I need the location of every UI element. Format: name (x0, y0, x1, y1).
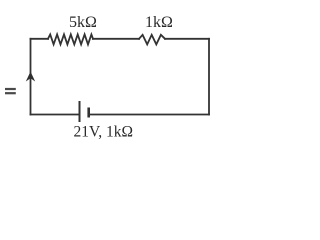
svg-text:5kΩ: 5kΩ (69, 14, 97, 31)
current arrow head (26, 72, 35, 82)
resistor R2 1kΩ zigzag (139, 35, 165, 45)
battery V1 long plate (79, 101, 81, 122)
wire left side (30, 39, 32, 115)
wire right side (208, 39, 210, 115)
label equals sign (5, 88, 16, 94)
battery V1 short plate (87, 108, 90, 118)
wire top-middle segment (93, 38, 139, 40)
wire top-right segment (165, 38, 209, 40)
wire bottom-right segment (89, 114, 209, 116)
svg-text:21V, 1kΩ: 21V, 1kΩ (74, 123, 133, 140)
svg-text:1kΩ: 1kΩ (145, 14, 173, 31)
wire top-left segment (31, 38, 49, 40)
wire bottom-left segment (31, 114, 80, 116)
resistor R1 5kΩ zigzag (48, 34, 93, 44)
